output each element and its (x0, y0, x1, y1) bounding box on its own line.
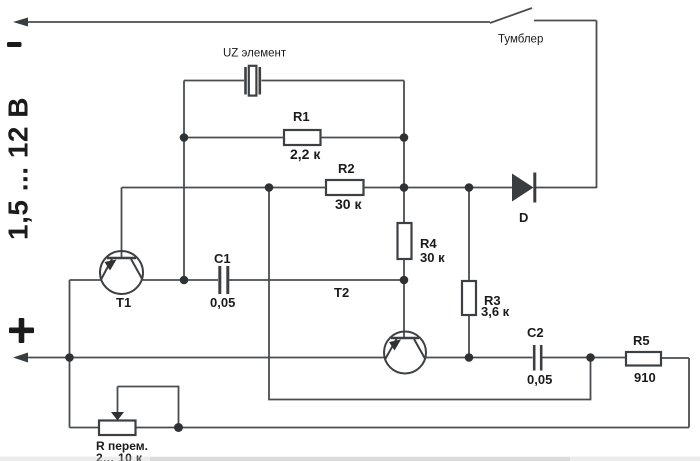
svg-text:0,05: 0,05 (210, 295, 235, 310)
wire R3 vertical x=469 (468, 188, 470, 358)
transistor T2 (384, 332, 426, 374)
resistor R2 (326, 180, 364, 195)
potentiometer R perem (99, 387, 179, 436)
wire R1 row y=137.5 (184, 137, 404, 139)
capacitor C1 (220, 266, 228, 294)
minus terminal symbol (7, 42, 22, 47)
svg-text:D: D (519, 210, 528, 225)
wire base row y=187.5 from T1 base to diode (122, 187, 597, 189)
resistor R5 (626, 352, 661, 366)
svg-text:0,05: 0,05 (527, 372, 552, 387)
wire C1 row y=280 from T1 collector to x=404 (143, 279, 404, 281)
wire minus rail (top) with left arrowhead (13, 18, 490, 27)
wire element row y=80 (184, 80, 404, 82)
wire feedback from base row down and to C2 right node (269, 188, 591, 400)
wire left vertical x=69.5 down to bottom rail (69, 280, 71, 428)
transistor T1 (100, 251, 143, 294)
wire right vertical from switch to diode (596, 21, 598, 189)
wire T1 left lead y=280 (70, 279, 101, 281)
svg-text:R5: R5 (633, 333, 650, 348)
wire right vertical x=404 from element row down to R4 (403, 81, 405, 224)
svg-text:R1: R1 (293, 109, 310, 124)
wire right vertical x=688 (688, 358, 690, 428)
svg-text:T1: T1 (116, 295, 131, 310)
svg-text:910: 910 (634, 370, 656, 385)
svg-text:30 к: 30 к (420, 250, 445, 265)
switch S1 toggle (Тумблер) (490, 8, 597, 23)
svg-text:Тумблер: Тумблер (498, 34, 543, 46)
battery element UZ (crystal symbol) (246, 66, 260, 96)
resistor R3 (462, 281, 476, 315)
svg-text:3,6 к: 3,6 к (481, 304, 510, 319)
svg-text:C2: C2 (527, 325, 544, 340)
resistor R1 (284, 130, 321, 145)
svg-text:C1: C1 (214, 251, 231, 266)
bottom edge scan remnant (0, 457, 700, 461)
plus terminal symbol (9, 318, 34, 343)
svg-text:R4: R4 (420, 236, 437, 251)
wire plus rail y=357.5 with left arrowhead (13, 353, 384, 363)
node junction dots (65, 133, 595, 432)
wire bottom rail y=427.5 (70, 427, 690, 429)
svg-text:R2: R2 (338, 161, 355, 176)
wire T1 base vertical x=121.5 (121, 188, 123, 259)
diode D (512, 173, 535, 203)
resistor R4 (398, 223, 412, 259)
wire x=404 from R4 bottom to T2 base (403, 259, 405, 338)
svg-text:1,5 ... 12 В: 1,5 ... 12 В (3, 97, 34, 240)
capacitor C2 (534, 345, 541, 371)
wire left vertical x=184 from element down to C1 row (183, 81, 185, 281)
wire collector row y=357.5 (T2 to right edge) (426, 357, 690, 360)
svg-text:2,2 к: 2,2 к (290, 146, 321, 162)
svg-text:30 к: 30 к (335, 196, 362, 212)
svg-text:T2: T2 (334, 285, 349, 300)
svg-text:UZ элемент: UZ элемент (223, 48, 287, 60)
